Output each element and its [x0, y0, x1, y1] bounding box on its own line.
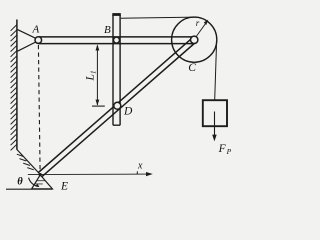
small tick on x axis [136, 171, 138, 174]
svg-text:C: C [188, 62, 196, 74]
bar EDC (diagonal bar) [38, 38, 196, 177]
wall [16, 20, 18, 150]
ground incline at wall bottom [17, 149, 40, 174]
svg-text:θ: θ [17, 176, 23, 187]
svg-text:D: D [123, 106, 133, 118]
svg-text:E: E [60, 181, 68, 193]
svg-text:x: x [137, 160, 143, 171]
weight box [203, 100, 227, 126]
incline hatching [17, 154, 34, 170]
svg-text:F: F [218, 143, 227, 155]
ground line at E [6, 188, 52, 190]
dimension line L1 [96, 45, 98, 105]
wall hatching [11, 25, 17, 151]
rope down from pulley [215, 42, 217, 101]
svg-text:A: A [32, 23, 40, 35]
dimension tick at D [92, 105, 105, 107]
theta arc [29, 178, 39, 187]
label L1 (rotated) [85, 71, 98, 82]
node E [39, 173, 42, 176]
svg-text:r: r [196, 18, 200, 28]
rod top cap [112, 13, 121, 16]
bar ABC (horizontal bar) [38, 37, 194, 44]
force F_P arrow [214, 112, 216, 139]
pin bracket at A [18, 30, 37, 52]
dashed line A-E [38, 45, 40, 172]
x axis through E [28, 173, 148, 176]
cord from rod top to pulley [121, 17, 196, 18]
vertical rod at B (B to D) [113, 15, 120, 126]
svg-text:B: B [104, 24, 111, 36]
hub pin C [191, 36, 198, 43]
hatch inside support [35, 181, 45, 184]
svg-text:P: P [226, 147, 232, 156]
radius arrow r [196, 22, 207, 38]
pulley C [172, 17, 217, 62]
pin D [114, 102, 121, 109]
support triangle at E [32, 175, 53, 189]
pin B [114, 37, 120, 43]
pin A [35, 37, 42, 44]
